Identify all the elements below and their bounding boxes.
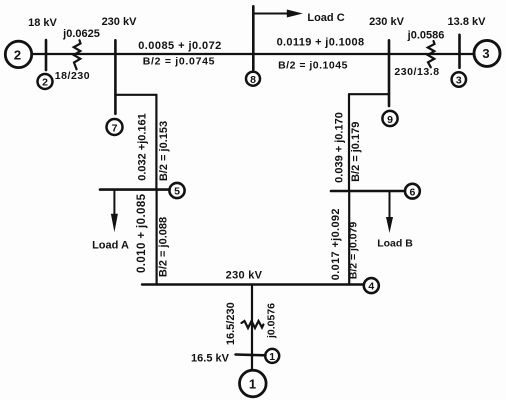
svg-text:2: 2 <box>14 47 21 62</box>
svg-text:j0.0576: j0.0576 <box>266 303 278 339</box>
svg-text:230 kV: 230 kV <box>369 16 405 28</box>
svg-text:2: 2 <box>42 77 48 89</box>
node 4 <box>364 278 379 293</box>
svg-text:0.032 +j0.161: 0.032 +j0.161 <box>137 113 149 181</box>
wire: line 9-6 <box>348 94 350 191</box>
transformer T2 (18/230) zigzag <box>74 40 81 69</box>
svg-text:0.017 +j0.092: 0.017 +j0.092 <box>330 208 342 280</box>
wire: main 230 kV tie line bus2-bus8-bus3 <box>32 53 474 55</box>
load A arrow <box>113 190 115 219</box>
svg-text:0.0119 + j0.1008: 0.0119 + j0.1008 <box>277 37 365 49</box>
svg-text:230/13.8: 230/13.8 <box>394 66 439 78</box>
node 9 <box>382 111 397 126</box>
transformer T3 (230/13.8) zigzag <box>428 41 435 67</box>
svg-text:18 kV: 18 kV <box>28 17 57 29</box>
svg-text:Load B: Load B <box>377 238 413 250</box>
svg-text:Load C: Load C <box>307 12 344 24</box>
svg-text:6: 6 <box>409 186 415 198</box>
wire: bottom 230 kV bus 4 <box>142 283 364 285</box>
svg-text:16.5/230: 16.5/230 <box>225 302 237 345</box>
svg-text:8: 8 <box>250 74 256 86</box>
svg-text:j0.0586: j0.0586 <box>407 30 445 42</box>
svg-text:3: 3 <box>456 75 462 87</box>
svg-text:13.8 kV: 13.8 kV <box>448 16 487 28</box>
svg-text:5: 5 <box>174 186 180 198</box>
node 3 <box>452 72 466 86</box>
svg-text:1: 1 <box>269 351 275 363</box>
load C arrow <box>253 13 289 15</box>
wire: bus 4 down to transformer T1 <box>251 285 253 371</box>
node 8 <box>246 72 260 86</box>
node 5 <box>169 183 184 198</box>
svg-text:B/2 = j0.079: B/2 = j0.079 <box>348 222 360 280</box>
node 2 <box>38 74 53 89</box>
wire: line 5-4 <box>156 190 158 285</box>
svg-text:B/2 = j0.1045: B/2 = j0.1045 <box>278 60 348 72</box>
svg-text:B/2 = j0.0745: B/2 = j0.0745 <box>143 56 215 68</box>
bus 2 (18 kV) bar <box>45 40 48 70</box>
bus 8 bar <box>252 6 255 70</box>
svg-text:230 kV: 230 kV <box>226 270 263 282</box>
svg-text:0.0085 + j0.072: 0.0085 + j0.072 <box>138 40 222 52</box>
generator G3 <box>474 40 500 66</box>
svg-text:9: 9 <box>387 114 393 126</box>
load B arrow <box>389 191 391 221</box>
bus 1 (16.5 kV) bar <box>236 353 266 356</box>
svg-text:7: 7 <box>112 122 118 134</box>
bus 7 (230 kV) bar <box>114 40 117 114</box>
wire: stub from bus 7 to line 7-5 <box>115 94 156 96</box>
wire: stub from bus 9 to line 9-6 <box>349 93 389 95</box>
svg-text:Load A: Load A <box>92 240 129 252</box>
bus 3 (13.8 kV) bar <box>458 35 461 68</box>
svg-text:0.010 + j0.085: 0.010 + j0.085 <box>136 193 148 273</box>
svg-text:4: 4 <box>368 281 374 293</box>
generator G2 <box>5 41 31 67</box>
svg-text:18/230: 18/230 <box>55 70 90 82</box>
wire: line 7-5 <box>155 95 157 190</box>
svg-text:1: 1 <box>249 376 256 391</box>
bus 5 bar <box>100 188 170 191</box>
generator G1 <box>240 370 267 397</box>
svg-text:B/2 = j0.153: B/2 = j0.153 <box>158 121 170 181</box>
svg-text:3: 3 <box>482 46 489 61</box>
transformer T1 (16.5/230) zigzag <box>242 321 264 328</box>
node 1 <box>265 349 279 363</box>
svg-text:0.039 + j0.170: 0.039 + j0.170 <box>334 112 346 183</box>
svg-text:16.5 kV: 16.5 kV <box>191 353 230 365</box>
wire: line 4-6 <box>348 191 350 285</box>
svg-text:230 kV: 230 kV <box>102 16 138 28</box>
bus 9 (230 kV) bar <box>388 40 391 106</box>
node 7 <box>107 119 123 135</box>
bus 6 bar <box>331 190 405 193</box>
svg-text:B/2 = j0.088: B/2 = j0.088 <box>158 217 170 277</box>
svg-text:B/2 = j0.179: B/2 = j0.179 <box>350 122 362 182</box>
node 6 <box>405 184 420 199</box>
svg-text:j0.0625: j0.0625 <box>62 28 100 40</box>
